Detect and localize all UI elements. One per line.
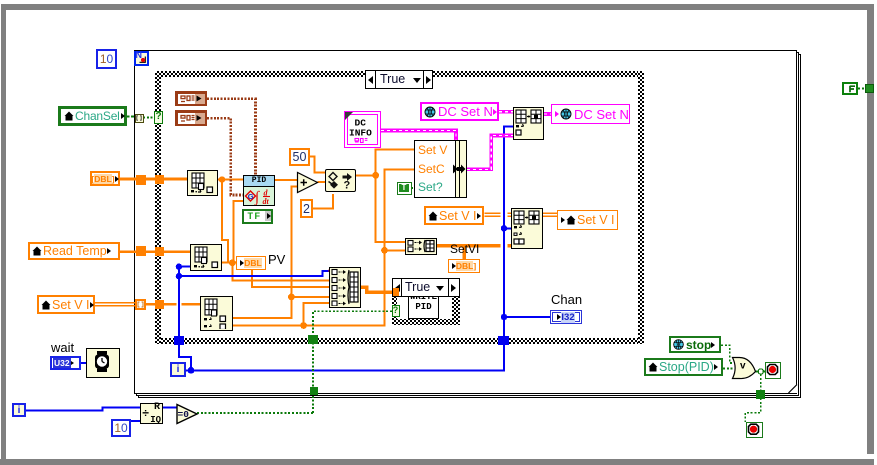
svg-text:∫: ∫ <box>254 190 261 206</box>
svg-text:INFO: INFO <box>349 128 372 139</box>
svg-text:dt: dt <box>263 197 270 205</box>
svg-text:?: ? <box>344 180 351 191</box>
svg-text:G: G <box>248 192 254 201</box>
